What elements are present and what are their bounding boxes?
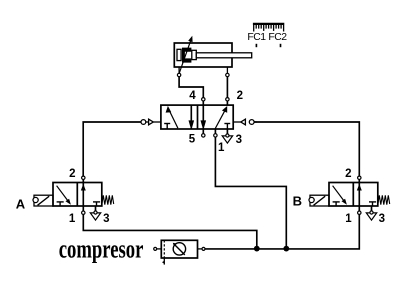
- junction node supply/valve A branch: [254, 246, 260, 252]
- valve V1 5/2 body: [161, 105, 233, 129]
- compressor P1 rotor circle with arrow: [173, 243, 186, 255]
- valve B passage 1-2 with up arrow (right cell): [357, 183, 362, 207]
- valve B blocked port 1 (T, left cell): [333, 202, 340, 206]
- valve B passage 2-3 diagonal arrow (left cell): [333, 186, 347, 205]
- valve B port 3 exhaust: [366, 206, 376, 220]
- valve V1 cell division: [197, 105, 199, 129]
- valve B manual actuator: [309, 195, 329, 206]
- valve A return spring: [102, 195, 114, 204]
- valve V1 left pilot (pneumatic): [141, 119, 161, 125]
- svg-text:3: 3: [379, 213, 385, 225]
- valve V1 blocked port 3 (T, right cell): [224, 124, 230, 130]
- svg-text:B: B: [293, 193, 302, 208]
- valve B port 2: [358, 176, 361, 182]
- svg-text:1: 1: [218, 142, 225, 154]
- wire V1 right pilot to valve B port 2: [254, 122, 359, 176]
- compressor P1 drive mark: [162, 258, 164, 265]
- junction node supply/valve V1 branch: [283, 246, 289, 252]
- valve V1 passage 1-4 diagonal arrow (left cell): [166, 106, 178, 128]
- valve A manual actuator: [33, 195, 53, 206]
- svg-text:1: 1: [69, 213, 76, 225]
- valve V1 passage 4-5 with down arrow: [201, 105, 207, 129]
- svg-text:compresor: compresor: [59, 233, 144, 263]
- limit switch FC1 marker: [255, 44, 257, 47]
- wire V1 port 1 to supply junction: [215, 137, 286, 248]
- compressor P1 dashed adjust line: [163, 240, 165, 258]
- svg-text:2: 2: [69, 168, 75, 180]
- svg-text:FC2: FC2: [268, 32, 287, 43]
- svg-text:4: 4: [189, 90, 196, 102]
- cylinder C1 port A (left): [177, 67, 180, 77]
- cylinder C1 port B (right): [226, 67, 229, 77]
- wire valve A port 1 to supply junction: [83, 214, 256, 248]
- wire V1 left pilot to valve A port 2: [83, 122, 141, 176]
- valve A passage 2-3 diagonal arrow (left cell): [57, 186, 71, 205]
- cylinder C1 body: [174, 43, 232, 67]
- svg-text:3: 3: [103, 213, 109, 225]
- cylinder C1 rod flange: [192, 50, 197, 59]
- wire compressor outlet to valve B port 1 (supply bus): [205, 214, 359, 249]
- svg-text:5: 5: [189, 134, 196, 146]
- cylinder C1 piston rod: [196, 53, 251, 58]
- valve V1 right pilot (pneumatic): [233, 119, 257, 125]
- svg-text:A: A: [16, 196, 26, 211]
- svg-text:2: 2: [345, 168, 351, 180]
- valve V1 port 4: [202, 98, 205, 105]
- svg-text:FC1: FC1: [247, 32, 266, 43]
- valve A port 1: [82, 206, 85, 214]
- valve A blocked port 1 (T, left cell): [57, 202, 64, 206]
- cylinder C1 piston (magnet): [182, 48, 191, 63]
- valve B 3/2 body: [329, 183, 378, 207]
- valve V1 port 3 exhaust: [222, 129, 232, 143]
- svg-text:3: 3: [236, 134, 242, 146]
- valve B port 1: [358, 206, 361, 214]
- wire cylinder port A to valve V1 port 4: [179, 77, 203, 98]
- compressor P1 inlet nipple: [154, 247, 162, 250]
- cylinder C1 rear cushion boss: [177, 49, 181, 60]
- valve V1 blocked port 5 (T, left cell): [164, 124, 170, 130]
- valve V1 port 2: [226, 98, 229, 105]
- ruler scale for limit switches: [253, 24, 284, 32]
- valve V1 port 5: [202, 129, 205, 137]
- valve B cell division: [352, 183, 354, 207]
- valve V1 passage 1-2 diagonal arrow (right cell): [215, 106, 227, 129]
- svg-text:2: 2: [237, 90, 243, 102]
- valve V1 passage 2-3 with down arrow: [189, 105, 195, 129]
- limit switch FC2 marker: [280, 44, 282, 47]
- valve A port 2: [82, 176, 85, 182]
- valve A 3/2 body: [53, 183, 102, 207]
- valve B blocked port 3 (T, right cell): [369, 202, 376, 206]
- valve A cell division: [76, 183, 78, 207]
- valve A port 3 exhaust: [90, 206, 100, 220]
- cylinder C1 adjustable cushion arrow: [179, 36, 192, 74]
- valve A passage 1-2 with up arrow (right cell): [81, 183, 86, 207]
- valve A blocked port 3 (T, right cell): [93, 202, 100, 206]
- compressor P1 outlet nipple: [198, 247, 206, 250]
- svg-text:1: 1: [345, 213, 352, 225]
- wire cylinder port B to valve V1 port 2: [226, 77, 228, 98]
- valve V1 port 1: [214, 129, 217, 137]
- valve B return spring: [378, 195, 390, 204]
- compressor P1 body: [161, 240, 197, 258]
